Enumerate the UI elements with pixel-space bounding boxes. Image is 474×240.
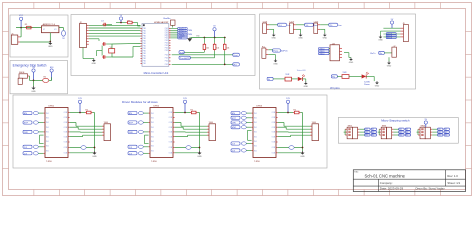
svg-text:Uart: Uart — [234, 54, 239, 57]
svg-text:IN1: IN1 — [46, 113, 49, 115]
svg-text:Pw: Pw — [332, 76, 335, 78]
svg-text:IN1: IN1 — [46, 127, 49, 129]
svg-text:Lim: Lim — [338, 25, 342, 27]
svg-text:IN1: IN1 — [46, 122, 49, 124]
svg-text:M1: M1 — [365, 132, 367, 134]
svg-text:Sch-01 CNC machine: Sch-01 CNC machine — [365, 173, 406, 178]
svg-text:DIR: DIR — [24, 132, 28, 134]
svg-text:SpE: SpE — [180, 52, 185, 54]
svg-text:IN1: IN1 — [254, 150, 257, 152]
svg-text:Micro-Stepping switch: Micro-Stepping switch — [381, 118, 410, 122]
svg-text:S1: S1 — [372, 135, 374, 137]
svg-text:GND: GND — [375, 85, 380, 87]
svg-text:S1: S1 — [406, 135, 408, 137]
svg-text:Date: 2023-09-29: Date: 2023-09-29 — [380, 187, 404, 191]
svg-text:StatusLED: StatusLED — [297, 69, 307, 72]
svg-text:S1: S1 — [372, 129, 374, 131]
svg-text:PD2: PD2 — [165, 50, 168, 52]
svg-text:GND: GND — [378, 40, 383, 42]
svg-text:M1: M1 — [399, 132, 401, 134]
svg-text:IN1: IN1 — [46, 136, 49, 138]
svg-text:IN1: IN1 — [151, 127, 154, 129]
svg-text:USB-D: USB-D — [319, 53, 325, 55]
svg-text:IN1: IN1 — [254, 122, 257, 124]
svg-text:IN1: IN1 — [151, 141, 154, 143]
svg-text:Sheet: 1/1: Sheet: 1/1 — [447, 181, 460, 185]
svg-text:T-R16: T-R16 — [151, 161, 158, 163]
svg-text:T-R16: T-R16 — [254, 161, 261, 163]
svg-text:10k: 10k — [227, 47, 230, 49]
svg-text:IN1: IN1 — [254, 118, 257, 120]
svg-text:IN1: IN1 — [46, 132, 49, 134]
svg-text:DRV1: DRV1 — [49, 105, 55, 107]
svg-text:M1: M1 — [438, 135, 440, 137]
svg-text:S1: S1 — [445, 132, 447, 134]
svg-text:IN1: IN1 — [46, 141, 49, 143]
svg-text:GND: GND — [31, 91, 36, 93]
svg-text:GND: GND — [271, 38, 276, 40]
svg-text:GND: GND — [387, 66, 392, 68]
svg-text:DIR: DIR — [232, 123, 236, 125]
svg-text:S1: S1 — [445, 135, 447, 137]
svg-text:PD2: PD2 — [165, 55, 168, 57]
svg-text:5VR: 5VR — [285, 74, 289, 76]
svg-text:IN1: IN1 — [151, 122, 154, 124]
svg-text:IN1: IN1 — [151, 132, 154, 134]
svg-text:IN1: IN1 — [46, 146, 49, 148]
svg-text:PWM: PWM — [188, 34, 193, 36]
svg-text:M1: M1 — [438, 132, 440, 134]
svg-text:M1: M1 — [365, 129, 367, 131]
svg-text:EN: EN — [129, 113, 132, 115]
svg-text:Drwn By: Suraj Yadav: Drwn By: Suraj Yadav — [416, 187, 446, 191]
svg-text:GND: GND — [197, 156, 202, 158]
svg-text:EN: EN — [232, 113, 235, 115]
svg-text:PWM: PWM — [188, 30, 193, 32]
svg-text:llelP01: llelP01 — [281, 51, 288, 53]
svg-text:IN1: IN1 — [254, 136, 257, 138]
svg-text:GND: GND — [298, 38, 303, 40]
svg-text:IN1: IN1 — [254, 146, 257, 148]
svg-text:S1: S1 — [406, 132, 408, 134]
svg-text:IN1: IN1 — [151, 136, 154, 138]
svg-text:ParallelP01: ParallelP01 — [180, 57, 192, 60]
svg-text:IN1: IN1 — [151, 118, 154, 120]
svg-text:DRV2: DRV2 — [154, 105, 160, 107]
svg-text:S1: S1 — [406, 129, 408, 131]
svg-text:PB1: PB1 — [143, 63, 146, 65]
svg-text:IN1: IN1 — [254, 113, 257, 115]
svg-text:PD2: PD2 — [165, 61, 168, 63]
svg-text:Lim: Lim — [314, 25, 318, 27]
svg-text:MODE: MODE — [387, 37, 393, 39]
svg-text:Rst: Rst — [234, 63, 238, 66]
svg-text:S1: S1 — [445, 129, 447, 131]
svg-text:STP: STP — [24, 123, 29, 125]
svg-text:PD2: PD2 — [165, 64, 168, 66]
svg-text:T-R16: T-R16 — [46, 161, 53, 163]
svg-text:STP: STP — [129, 123, 134, 125]
svg-text:Lim: Lim — [287, 25, 291, 27]
svg-text:IN1: IN1 — [151, 113, 154, 115]
svg-text:M1: M1 — [399, 135, 401, 137]
svg-text:IN1: IN1 — [46, 150, 49, 152]
svg-text:GND: GND — [92, 63, 97, 65]
svg-text:GND: GND — [48, 46, 53, 48]
svg-text:PD2: PD2 — [165, 58, 168, 60]
svg-text:GND: GND — [323, 38, 328, 40]
svg-text:Driver Modules for all Axes: Driver Modules for all Axes — [122, 100, 158, 104]
svg-text:I/O pins: I/O pins — [330, 86, 340, 90]
svg-text:RxTx: RxTx — [370, 53, 376, 55]
svg-text:DRV3: DRV3 — [257, 105, 263, 107]
svg-text:IN1: IN1 — [151, 150, 154, 152]
svg-text:GND: GND — [92, 156, 97, 158]
svg-text:5VR: 5VR — [343, 72, 347, 74]
svg-text:Emergency Stop Switch: Emergency Stop Switch — [13, 64, 47, 68]
svg-text:IN1: IN1 — [254, 132, 257, 134]
svg-text:Micro-Controller Unit: Micro-Controller Unit — [144, 71, 169, 75]
svg-text:IN1: IN1 — [151, 146, 154, 148]
svg-text:EN: EN — [24, 113, 27, 115]
svg-text:M1: M1 — [365, 135, 367, 137]
svg-text:GND: GND — [273, 63, 278, 65]
svg-text:BuzMo: BuzMo — [164, 18, 172, 20]
svg-text:IN1: IN1 — [46, 118, 49, 120]
svg-text:Power: Power — [364, 84, 370, 86]
svg-text:S1: S1 — [372, 132, 374, 134]
svg-text:MS1: MS1 — [232, 127, 237, 129]
svg-text:Para: Para — [273, 50, 278, 53]
svg-text:Company:: Company: — [380, 181, 393, 185]
svg-text:10k: 10k — [206, 47, 209, 49]
svg-text:IN1: IN1 — [254, 141, 257, 143]
svg-text:GND: GND — [304, 86, 309, 88]
svg-text:IN1: IN1 — [254, 127, 257, 129]
svg-text:10k: 10k — [216, 47, 219, 49]
svg-text:M1: M1 — [399, 129, 401, 131]
svg-text:Rev: 1.0: Rev: 1.0 — [447, 174, 458, 178]
svg-text:GND: GND — [300, 156, 305, 158]
svg-text:STP: STP — [232, 118, 237, 120]
svg-text:GND: GND — [349, 62, 354, 64]
svg-text:Hold: Hold — [179, 38, 183, 40]
svg-text:M1: M1 — [438, 129, 440, 131]
svg-text:DIR: DIR — [129, 132, 133, 134]
